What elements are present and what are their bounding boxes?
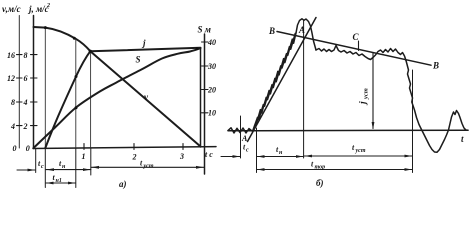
t_n arrows: [46, 168, 54, 171]
dim arrow into t_c left: [17, 169, 35, 171]
svg-text:а): а): [119, 179, 127, 189]
curve point dots: [44, 26, 199, 109]
right plot: j_ust vertical measure line: [372, 53, 374, 129]
dropline at t_c end: [44, 28, 46, 148]
right plot: t_ust arrows: [304, 155, 312, 158]
dropline at t_n end: [75, 39, 77, 148]
left plot: v axis (thin outer axis): [18, 16, 20, 149]
svg-text:тор: тор: [315, 165, 326, 171]
t axis ticks 1,2,3: [84, 144, 183, 150]
right plot: noisy start zigzag: [228, 128, 252, 133]
left plot: S axis (right axis): [204, 34, 206, 174]
svg-text:16: 16: [7, 51, 15, 60]
right plot: baseline axis: [228, 129, 468, 132]
svg-text:0: 0: [26, 144, 30, 153]
svg-text:j: j: [359, 101, 369, 106]
S axis ticks: [202, 42, 209, 113]
j_ust down arrow: [372, 122, 375, 130]
curve S: [34, 48, 201, 148]
curve j ramp: [45, 51, 90, 148]
right plot: t_tor arrows: [257, 168, 264, 171]
right plot: noisy rise: [253, 33, 296, 130]
svg-text:В: В: [432, 61, 439, 71]
svg-text:10: 10: [208, 109, 216, 118]
curve v: [34, 27, 201, 147]
svg-text:t с: t с: [205, 150, 213, 159]
svg-text:2: 2: [23, 122, 28, 131]
svg-text:v,м/с: v,м/с: [2, 4, 21, 14]
svg-text:4: 4: [23, 98, 28, 107]
svg-text:12: 12: [7, 74, 15, 83]
dim line t_n: [46, 169, 91, 171]
svg-text:3: 3: [179, 152, 184, 161]
svg-text:уст: уст: [363, 88, 370, 100]
left plot: x axis (t): [33, 147, 216, 149]
extension lines below axis (left plot): [35, 149, 37, 173]
svg-text:1: 1: [82, 152, 86, 161]
arrow into t_c (left plot): [28, 169, 36, 172]
right plot: trend line B-C-B: [277, 32, 431, 66]
svg-text:j: j: [141, 38, 146, 48]
svg-text:2: 2: [46, 3, 50, 9]
right plot dim lines row1: [221, 156, 240, 158]
left plot: j axis (main left axis): [33, 16, 35, 149]
svg-text:8: 8: [11, 98, 15, 107]
svg-text:4: 4: [10, 122, 15, 131]
svg-text:S: S: [136, 55, 141, 65]
svg-text:А: А: [298, 25, 305, 35]
dropline at junction: [90, 51, 92, 148]
label j_ust rotated: [359, 88, 370, 106]
t_ust arrows (left): [91, 166, 99, 169]
right plot: tick under C: [358, 41, 360, 51]
right plot: tangent line through rise: [248, 18, 317, 142]
svg-text:уст: уст: [143, 164, 154, 170]
svg-text:30: 30: [207, 62, 216, 71]
svg-text:6: 6: [24, 74, 28, 83]
v axis ticks: [17, 55, 23, 126]
right plot: overshoot hump: [296, 19, 316, 50]
svg-text:с: с: [246, 148, 249, 154]
right plot: noisy drop and dip: [406, 61, 468, 153]
svg-text:8: 8: [24, 51, 28, 60]
svg-text:S м: S м: [198, 25, 211, 35]
svg-text:t: t: [461, 134, 464, 144]
svg-text:уст: уст: [355, 148, 366, 154]
right plot dim line row2 t_tor: [257, 169, 412, 171]
svg-text:В: В: [268, 26, 275, 36]
dim line t_ust (left plot): [91, 166, 204, 168]
svg-text:С: С: [353, 32, 360, 42]
t_n1 arrows: [46, 182, 53, 185]
left plot: right border / j drop line: [200, 48, 202, 147]
svg-text:0: 0: [13, 144, 17, 153]
svg-text:н1: н1: [56, 178, 62, 184]
right plot: t_n arrows: [257, 155, 264, 158]
svg-text:j, м/с: j, м/с: [27, 4, 49, 14]
svg-text:2: 2: [132, 153, 137, 162]
arrowheads: [28, 122, 413, 184]
svg-text:40: 40: [207, 38, 216, 47]
svg-text:с: с: [41, 164, 44, 170]
right plot: noisy plateau along trend: [316, 46, 406, 61]
svg-text:н: н: [279, 150, 283, 156]
right plot: t_c arrow: [233, 155, 241, 158]
right plot extension lines: [240, 116, 242, 158]
j axis ticks: [31, 55, 38, 126]
curve j constant top line: [90, 48, 200, 52]
svg-text:б): б): [316, 178, 324, 188]
dim line t_n1 row2: [46, 182, 76, 184]
svg-text:20: 20: [207, 85, 216, 94]
